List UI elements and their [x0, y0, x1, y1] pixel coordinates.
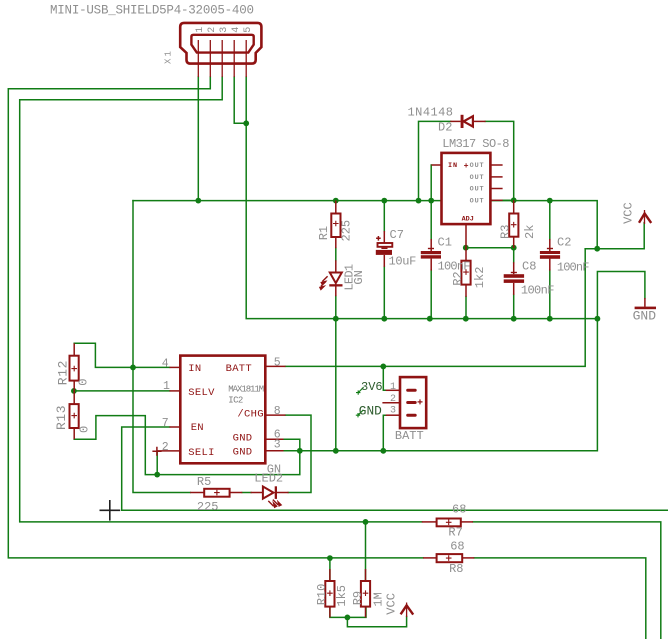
svg-text:R10: R10	[315, 584, 329, 606]
svg-text:C1: C1	[438, 236, 452, 250]
svg-text:ADJ: ADJ	[462, 216, 474, 224]
svg-text:R9: R9	[351, 591, 365, 605]
svg-text:1M: 1M	[372, 592, 386, 606]
svg-text:SELI: SELI	[188, 447, 214, 459]
svg-text:R8: R8	[449, 562, 463, 576]
svg-text:2k: 2k	[523, 225, 537, 239]
svg-text:LM317 SO-8: LM317 SO-8	[442, 137, 509, 151]
svg-text:OUT: OUT	[470, 197, 485, 205]
svg-text:BATT: BATT	[395, 429, 424, 443]
svg-text:LED2: LED2	[254, 471, 283, 485]
svg-text:R2: R2	[451, 271, 465, 285]
svg-text:GN: GN	[352, 270, 366, 284]
svg-text:1: 1	[163, 380, 170, 393]
svg-text:4: 4	[231, 27, 242, 33]
svg-text:VCC: VCC	[385, 593, 399, 615]
svg-text:3V6: 3V6	[361, 380, 383, 394]
svg-text:3: 3	[274, 439, 281, 452]
svg-text:68: 68	[450, 540, 464, 554]
svg-text:GND: GND	[233, 433, 253, 445]
svg-text:3: 3	[390, 406, 396, 417]
svg-text:C2: C2	[557, 236, 571, 250]
svg-text:+: +	[464, 162, 470, 171]
svg-text:5: 5	[243, 27, 254, 33]
svg-text:VCC: VCC	[621, 202, 635, 224]
svg-text:R13: R13	[54, 405, 69, 430]
svg-text:R7: R7	[448, 526, 462, 540]
svg-text:1: 1	[390, 382, 396, 393]
svg-text:C8: C8	[522, 260, 536, 274]
svg-text:X1: X1	[163, 49, 173, 64]
svg-text:100nF: 100nF	[557, 261, 590, 275]
svg-text:MAX1811M: MAX1811M	[228, 384, 263, 394]
svg-text:1N4148: 1N4148	[408, 106, 454, 120]
svg-text:SELV: SELV	[188, 387, 215, 399]
svg-text:GND: GND	[633, 309, 657, 324]
svg-text:EN: EN	[191, 422, 204, 434]
svg-text:1k2: 1k2	[473, 267, 487, 289]
svg-text:225: 225	[340, 220, 354, 242]
svg-text:OUT: OUT	[470, 186, 485, 194]
svg-text:8: 8	[274, 405, 281, 418]
svg-text:7: 7	[162, 417, 169, 430]
svg-text:4: 4	[162, 357, 169, 370]
svg-text:10uF: 10uF	[389, 255, 417, 269]
svg-text:BATT: BATT	[226, 363, 252, 375]
svg-text:R5: R5	[197, 475, 211, 489]
svg-text:GND: GND	[359, 404, 382, 419]
svg-text:225: 225	[197, 500, 219, 514]
svg-text:0: 0	[78, 426, 92, 433]
svg-text:R12: R12	[55, 360, 70, 385]
svg-text:2: 2	[390, 394, 396, 405]
svg-text:IN: IN	[188, 363, 201, 375]
svg-text:R3: R3	[499, 225, 513, 239]
svg-text:1k5: 1k5	[335, 585, 349, 607]
svg-text:MINI-USB_SHIELD5P4-32005-400: MINI-USB_SHIELD5P4-32005-400	[50, 4, 254, 18]
svg-text:2: 2	[207, 27, 218, 33]
svg-text:100nF: 100nF	[521, 284, 555, 298]
svg-text:/CHG: /CHG	[237, 409, 263, 421]
svg-text:D2: D2	[438, 121, 452, 135]
svg-text:3: 3	[219, 27, 230, 33]
svg-text:R1: R1	[317, 226, 331, 240]
svg-text:C7: C7	[390, 228, 404, 242]
svg-text:IN: IN	[448, 162, 458, 170]
svg-text:GND: GND	[233, 447, 253, 459]
svg-text:OUT: OUT	[470, 174, 485, 182]
svg-text:2: 2	[162, 441, 169, 454]
svg-text:68: 68	[452, 503, 466, 517]
svg-text:5: 5	[274, 356, 281, 369]
svg-text:1: 1	[195, 27, 206, 33]
svg-text:IC2: IC2	[228, 395, 243, 405]
svg-text:OUT: OUT	[470, 162, 485, 170]
svg-text:0: 0	[77, 379, 91, 386]
